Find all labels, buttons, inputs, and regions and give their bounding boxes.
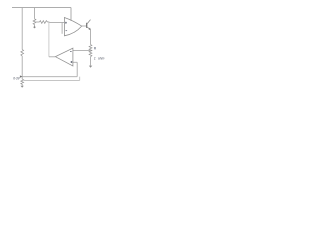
label: R designator — [94, 47, 97, 51]
wire: R2 output lead to op-amp U1 input — [48, 21, 65, 23]
wire: op-amp U1 output to transistor base — [82, 25, 87, 27]
resistor: potentiometer lower half body — [21, 79, 24, 86]
resistor R 1 ohm body — [89, 45, 92, 57]
op-amp U1 triangle — [64, 18, 81, 36]
wire: below resistor R — [90, 57, 92, 66]
wire: riser joining lower tap to wiper wire — [79, 77, 81, 81]
wire: op-amp U2 output lead — [49, 56, 55, 58]
label: 1 ohm value — [94, 56, 105, 60]
ground: down arrow at resistor R bottom — [89, 66, 93, 68]
label: U1 minus input — [66, 30, 68, 32]
resistor: vertical resistor R1 body — [33, 19, 36, 25]
label: U2 minus input — [70, 51, 72, 53]
svg-text:R: R — [94, 47, 97, 51]
resistor: potentiometer upper half body — [21, 50, 24, 57]
wire: emitter down to sense resistor R — [90, 30, 92, 45]
wire: op-amp U2 plus input lead — [73, 61, 77, 63]
ground: down arrow at pot bottom — [21, 86, 24, 88]
node: wiper arrowhead pointing right — [20, 75, 23, 77]
transistor Q1 base bar — [86, 23, 88, 28]
wire: inverting input stub of op-amp U1 — [61, 22, 63, 33]
wire: wiper output running right — [22, 76, 77, 78]
wire: top feedback/supply rail — [12, 7, 71, 9]
wire: stub below R1 — [34, 25, 36, 27]
svg-text:1ohm: 1ohm — [94, 56, 105, 60]
op-amp U2 triangle pointing left — [55, 48, 73, 66]
wire: lead from R1 into horizontal resistor R2 — [35, 21, 39, 23]
label: U2 plus input — [70, 61, 72, 63]
wire: lower horizontal tap from pot body — [24, 79, 80, 81]
resistor: horizontal resistor R2 body — [40, 21, 48, 24]
transistor Q1 collector — [87, 20, 91, 25]
wire: long riser from input node down to op-amp U2 output — [48, 22, 50, 57]
wire: left branch upper segment — [21, 8, 23, 50]
label: 0-3V input annotation — [13, 77, 20, 81]
wire: left branch lower segment — [21, 56, 23, 79]
node: junction dot under R1 — [34, 26, 36, 28]
label: U1 plus input — [65, 22, 67, 24]
wire: op-amp U2 minus sense wire to resistor R — [73, 50, 91, 52]
wire: rail corner down to op-amp U1 top edge — [70, 8, 72, 21]
transistor Q1 emitter with arrow — [87, 27, 91, 30]
svg-text:0-3V: 0-3V — [13, 77, 20, 81]
wire: second branch from rail — [34, 8, 36, 19]
wire: riser from wiper wire up to op-amp U2 plus input — [76, 62, 78, 76]
